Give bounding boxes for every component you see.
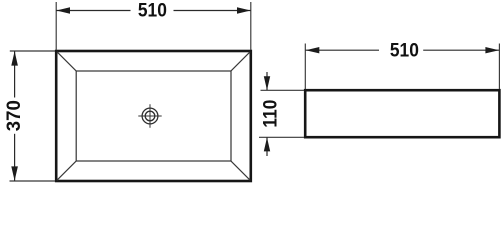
arrow down onto top of 110: [264, 76, 270, 90]
extension line left (510 side dim): [304, 44, 306, 90]
dimension line 370 top segment: [14, 51, 16, 97]
bevel line bottom-left corner: [57, 161, 77, 181]
dimension line 510 right segment: [174, 10, 251, 12]
svg-text:370: 370: [3, 100, 25, 131]
drain outer circle: [142, 108, 158, 124]
drain crosshair vertical: [149, 104, 151, 128]
extension line right (510 side dim): [498, 44, 500, 90]
outer basin rim rectangle: [56, 51, 251, 181]
bevel line top-left corner: [57, 52, 77, 72]
side profile rectangle: [305, 90, 499, 137]
arrow right of top 510: [237, 7, 251, 13]
dimension line 110 upper segment: [266, 72, 268, 90]
extension line left (510 top dim): [55, 2, 57, 50]
dimension line 510 left segment: [56, 10, 130, 12]
dimension line 370 bottom segment: [14, 134, 16, 181]
extension line bottom (370 dim): [10, 180, 56, 182]
arrow left of side 510: [306, 47, 320, 53]
bevel line bottom-right corner: [231, 161, 251, 181]
svg-text:110: 110: [259, 100, 281, 128]
svg-text:510: 510: [390, 40, 419, 62]
inner basin rectangle: [76, 71, 231, 161]
drain crosshair horizontal: [138, 115, 161, 117]
dimension line 510 side right segment: [423, 49, 499, 51]
extension line bottom (110 dim): [259, 136, 304, 138]
extension line top (370 dim): [10, 50, 55, 52]
arrow up of 370: [11, 51, 18, 65]
arrow up onto bottom of 110: [264, 138, 270, 152]
extension line top (110 dim): [261, 89, 305, 91]
arrow right of side 510: [485, 47, 499, 53]
arrow left of top 510: [56, 7, 70, 13]
drain inner circle: [145, 111, 155, 121]
dimension line 110 lower segment: [266, 138, 268, 157]
dimension line 510 side left segment: [306, 49, 380, 51]
arrow down of 370: [11, 166, 18, 180]
bevel line top-right corner: [231, 52, 251, 72]
svg-text:510: 510: [138, 0, 167, 22]
extension line right (510 top dim): [250, 2, 252, 50]
